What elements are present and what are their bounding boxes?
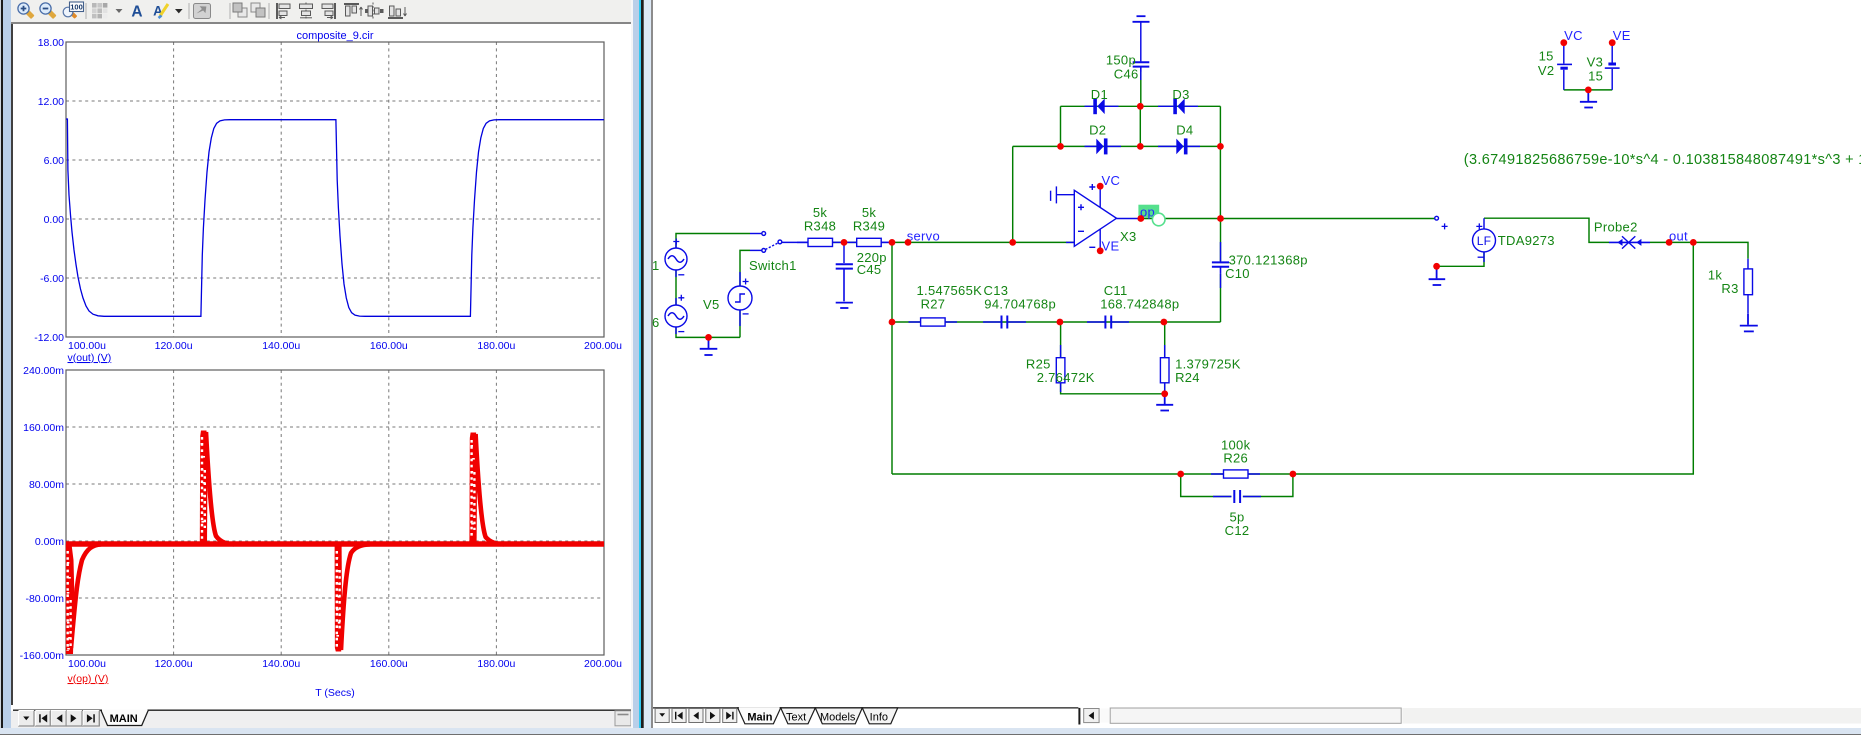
wire diode box left vertical bbox=[1060, 106, 1062, 146]
blue pin overlays bbox=[676, 44, 1748, 497]
svg-text:Probe2: Probe2 bbox=[1594, 220, 1638, 235]
svg-text:servo: servo bbox=[907, 229, 940, 244]
svg-text:18.00: 18.00 bbox=[38, 37, 64, 49]
wire V2 V3 bottom bus bbox=[1564, 89, 1612, 91]
svg-text:Switch1: Switch1 bbox=[749, 258, 797, 273]
white flecks inside spikes bbox=[67, 443, 476, 650]
svg-text:A: A bbox=[131, 4, 142, 21]
svg-text:C12: C12 bbox=[1225, 523, 1250, 538]
pin C46 leads bbox=[1140, 61, 1142, 80]
junction V2 V3 ground bbox=[1585, 87, 1592, 94]
plot1 x labels bbox=[68, 340, 622, 352]
wire switch to R348 bbox=[782, 241, 809, 243]
align left bbox=[277, 3, 290, 19]
junction servo right bbox=[905, 239, 912, 246]
svg-text:80.00m: 80.00m bbox=[29, 479, 64, 491]
plot1 trace v(out) bbox=[66, 119, 604, 316]
pin V2 leads bbox=[1563, 44, 1565, 90]
junction diode row2 left bbox=[1057, 143, 1064, 150]
zoom in bbox=[18, 3, 35, 19]
svg-text:VC: VC bbox=[1102, 173, 1121, 188]
junction C13 C11 R25 bbox=[1057, 319, 1064, 326]
pin V6 top lead bbox=[675, 298, 677, 305]
wire servo branch down to R27 row and feedback row bbox=[891, 242, 893, 474]
scrollbar thumb bbox=[1110, 708, 1401, 723]
pin R348 leads bbox=[797, 241, 857, 243]
capacitor C45 bbox=[836, 264, 853, 301]
capacitor C13 bbox=[1002, 316, 1008, 329]
battery V2 bbox=[1557, 64, 1572, 68]
pin V6 bottom lead bbox=[675, 327, 677, 334]
pin R25 leads bbox=[1060, 345, 1062, 392]
svg-text:140.00u: 140.00u bbox=[262, 340, 300, 352]
wire C46 top to ground bbox=[1140, 23, 1142, 62]
laplace source LF TDA9273 bbox=[1473, 223, 1496, 257]
resistor R25 bbox=[1056, 358, 1065, 383]
zoom 100% bbox=[63, 2, 83, 19]
svg-text:15: 15 bbox=[1588, 69, 1603, 84]
probe Probe2 bbox=[1609, 236, 1650, 248]
align bottom bbox=[388, 6, 407, 18]
svg-text:100.00u: 100.00u bbox=[68, 658, 106, 670]
diode D1 bbox=[1093, 98, 1104, 114]
wire C46 to diode row1 bbox=[1140, 72, 1142, 107]
resistor R349 bbox=[857, 238, 882, 246]
wire V5 bottom bbox=[739, 310, 741, 337]
junction op-amp VC pin bbox=[1097, 183, 1104, 190]
svg-text:V3: V3 bbox=[1587, 55, 1604, 70]
svg-text:Text: Text bbox=[786, 711, 806, 723]
pin op-amp minus lead bbox=[1066, 241, 1074, 243]
to front bbox=[233, 3, 247, 17]
svg-text:VE: VE bbox=[1102, 239, 1120, 254]
ground (R3) bbox=[1740, 314, 1758, 332]
svg-text:12.00: 12.00 bbox=[38, 96, 64, 108]
junction servo left bbox=[889, 239, 896, 246]
wire feedback row left segment bbox=[892, 473, 1181, 475]
wire diode row2 bbox=[1013, 145, 1221, 147]
junction VE supply bbox=[1609, 39, 1616, 46]
svg-text:1k: 1k bbox=[1708, 268, 1723, 283]
wire V1 top to switch bbox=[676, 234, 750, 249]
svg-text:composite_9.cir: composite_9.cir bbox=[296, 30, 373, 42]
ground (R24) bbox=[1156, 394, 1173, 411]
pin V1 top lead bbox=[675, 241, 677, 248]
wire out to R3 bbox=[1693, 242, 1748, 258]
wire op output net bbox=[1141, 218, 1435, 220]
svg-text:Info: Info bbox=[869, 711, 887, 723]
junction diode drop on servo net bbox=[1009, 239, 1016, 246]
junction R348 R349 C45 bbox=[841, 239, 848, 246]
wire C10 branch bbox=[1220, 219, 1222, 323]
junction C11 R24 bbox=[1161, 319, 1168, 326]
svg-text:v(out) (V): v(out) (V) bbox=[68, 352, 112, 364]
pin switch lower lead bbox=[750, 249, 762, 251]
svg-text:V5: V5 bbox=[703, 297, 720, 312]
wire LF minus to ground bbox=[1437, 252, 1484, 266]
plot1 grid bbox=[66, 42, 604, 337]
plot2 border bbox=[66, 370, 604, 655]
spike white dash texture bbox=[68, 437, 475, 651]
junction feedback R26 left bbox=[1177, 471, 1184, 478]
nav buttons bbox=[19, 711, 100, 726]
resistor R24 bbox=[1160, 358, 1169, 383]
pin V5 leads bbox=[739, 272, 741, 326]
resistor R348 bbox=[808, 238, 833, 246]
junction output C10 bbox=[1217, 215, 1224, 222]
pin R26 leads bbox=[1211, 473, 1260, 475]
plot1 y labels bbox=[34, 37, 64, 344]
spikes: recovery curves bbox=[71, 432, 504, 650]
picture tool bbox=[194, 3, 211, 18]
svg-text:-6.00: -6.00 bbox=[40, 273, 64, 285]
junction out left bbox=[1666, 239, 1673, 246]
align top bbox=[344, 4, 363, 16]
svg-text:R27: R27 bbox=[921, 297, 946, 312]
junction VC supply bbox=[1560, 39, 1567, 46]
pin V1 bottom lead bbox=[675, 270, 677, 277]
wire V6 to ground bus bbox=[676, 327, 740, 337]
capacitor C10 bbox=[1212, 262, 1229, 273]
zoom out bbox=[40, 3, 57, 19]
junction out right bbox=[1690, 239, 1697, 246]
svg-text:120.00u: 120.00u bbox=[155, 658, 193, 670]
junction sources ground bbox=[705, 334, 712, 341]
svg-text:R349: R349 bbox=[853, 219, 885, 234]
svg-text:LF: LF bbox=[1477, 234, 1492, 248]
junction diode row2 center bbox=[1137, 143, 1144, 150]
pin LF leads bbox=[1483, 218, 1485, 262]
op-amp X3 bbox=[1051, 184, 1117, 250]
junction diode row1 center bbox=[1137, 103, 1144, 110]
svg-text:0.00m: 0.00m bbox=[35, 536, 64, 548]
tabs bbox=[780, 708, 815, 724]
pin switch upper lead bbox=[750, 233, 762, 235]
svg-text:v(op) (V): v(op) (V) bbox=[68, 673, 109, 685]
svg-text:R24: R24 bbox=[1175, 370, 1200, 385]
svg-text:200.00u: 200.00u bbox=[584, 340, 622, 352]
svg-text:100.00u: 100.00u bbox=[68, 340, 106, 352]
svg-text:V6: V6 bbox=[652, 315, 660, 330]
svg-text:6.00: 6.00 bbox=[44, 155, 65, 167]
svg-text:200.00u: 200.00u bbox=[584, 658, 622, 670]
grid select bbox=[92, 3, 107, 18]
svg-text:94.704768p: 94.704768p bbox=[984, 297, 1056, 312]
wire diode row1 to row2 center bbox=[1139, 106, 1141, 146]
MAIN tab bbox=[101, 710, 148, 725]
svg-text:R26: R26 bbox=[1223, 451, 1248, 466]
ground (C46 top, inverted) bbox=[1133, 16, 1150, 22]
pin C13 leads bbox=[983, 321, 1026, 323]
svg-text:TDA9273: TDA9273 bbox=[1498, 233, 1555, 248]
pin D1 leads bbox=[1085, 105, 1119, 107]
wire servo net to op-amp minus input bbox=[892, 241, 1074, 243]
ground (sources) bbox=[700, 337, 718, 355]
wire R348 to R349 node bbox=[833, 241, 857, 243]
svg-text:VC: VC bbox=[1564, 28, 1583, 43]
laplace source TDA9273 open pin bbox=[1435, 216, 1448, 229]
svg-text:0.00: 0.00 bbox=[44, 214, 65, 226]
switch Switch1 bbox=[762, 232, 782, 253]
svg-text:C10: C10 bbox=[1225, 266, 1250, 281]
pin C12 leads bbox=[1213, 496, 1261, 498]
junction op output bbox=[1137, 215, 1144, 222]
svg-text:15: 15 bbox=[1539, 49, 1554, 64]
plot1 border bbox=[66, 42, 604, 337]
svg-text:(3.67491825686759e-10*s^4 - 0.: (3.67491825686759e-10*s^4 - 0.1038158480… bbox=[1464, 152, 1861, 168]
align middle bbox=[366, 3, 384, 20]
diode D4 bbox=[1176, 138, 1187, 154]
wire R349 to servo node bbox=[881, 241, 892, 243]
wire diode row1 bbox=[1061, 105, 1221, 107]
svg-text:160.00u: 160.00u bbox=[370, 658, 408, 670]
svg-text:D4: D4 bbox=[1176, 123, 1193, 138]
svg-text:180.00u: 180.00u bbox=[477, 340, 515, 352]
tab strip right edge bbox=[1078, 708, 1080, 725]
pin C45 top lead bbox=[843, 242, 845, 263]
svg-text:V1: V1 bbox=[652, 258, 660, 273]
plot2 y labels bbox=[20, 365, 65, 662]
align right bbox=[322, 3, 335, 19]
spikes: columns bbox=[66, 431, 477, 655]
junction R27 row left bbox=[889, 319, 896, 326]
svg-text:100: 100 bbox=[70, 3, 83, 12]
ground (LF source) bbox=[1429, 266, 1446, 285]
resistor R26 bbox=[1224, 470, 1249, 478]
junction op-amp VE pin bbox=[1097, 247, 1104, 254]
junction LF ground bbox=[1433, 263, 1440, 270]
capacitor C46 bbox=[1133, 62, 1150, 71]
nav buttons bbox=[655, 709, 737, 723]
wire R24 branch bbox=[1164, 322, 1166, 394]
node op selection ring bbox=[1152, 213, 1165, 226]
svg-text:D2: D2 bbox=[1089, 123, 1106, 138]
svg-text:R3: R3 bbox=[1721, 281, 1738, 296]
svg-text:-80.00m: -80.00m bbox=[25, 593, 64, 605]
wire LF plus pin riser bbox=[1484, 218, 1609, 242]
svg-text:D1: D1 bbox=[1091, 87, 1108, 102]
right gripper bbox=[615, 711, 631, 726]
svg-text:V2: V2 bbox=[1538, 63, 1555, 78]
scrollbar left arrow bbox=[1083, 709, 1098, 723]
pin op-amp output lead bbox=[1117, 218, 1141, 220]
svg-text:T (Secs): T (Secs) bbox=[315, 687, 354, 699]
svg-text:180.00u: 180.00u bbox=[477, 658, 515, 670]
resistor R3 bbox=[1744, 269, 1753, 295]
wire feedback row to R26 bbox=[1181, 473, 1293, 475]
capacitor C12 bbox=[1234, 490, 1240, 503]
svg-text:C46: C46 bbox=[1114, 67, 1139, 82]
wire diode row2 left drop to servo net bbox=[1012, 146, 1014, 242]
svg-text:2.76472K: 2.76472K bbox=[1037, 370, 1095, 385]
svg-text:VE: VE bbox=[1613, 28, 1631, 43]
junction feedback R26 right bbox=[1290, 471, 1297, 478]
svg-text:D3: D3 bbox=[1172, 87, 1189, 102]
plot2 x labels bbox=[68, 658, 622, 670]
scrollbar track bbox=[1402, 708, 1861, 723]
sine source V1 bbox=[665, 239, 687, 275]
font color A with pencil bbox=[153, 4, 168, 19]
wire diode box right vertical to output bbox=[1219, 106, 1221, 218]
pin R24 leads bbox=[1164, 345, 1166, 392]
svg-text:160.00u: 160.00u bbox=[370, 340, 408, 352]
pin D2 leads bbox=[1085, 145, 1122, 147]
pin C10 leads bbox=[1220, 242, 1222, 288]
pin R3 leads bbox=[1747, 259, 1749, 314]
svg-text:X3: X3 bbox=[1120, 229, 1137, 244]
svg-text:160.00m: 160.00m bbox=[23, 422, 64, 434]
align center bbox=[300, 3, 313, 20]
wire R25 branch bbox=[1061, 322, 1165, 394]
ground (C45) bbox=[836, 303, 853, 308]
diode D3 bbox=[1173, 98, 1184, 114]
pin C11 leads bbox=[1087, 321, 1129, 323]
node op highlight bbox=[1138, 205, 1159, 218]
svg-text:-12.00: -12.00 bbox=[34, 332, 64, 344]
svg-text:Models: Models bbox=[820, 711, 856, 723]
svg-text:MAIN: MAIN bbox=[110, 713, 138, 725]
svg-text:R348: R348 bbox=[804, 219, 836, 234]
resistor R27 bbox=[921, 318, 946, 326]
wire R27 C13 C11 row bbox=[892, 321, 1221, 323]
pin R27 leads bbox=[909, 321, 958, 323]
battery V3 bbox=[1605, 64, 1620, 68]
svg-text:240.00m: 240.00m bbox=[23, 365, 64, 377]
svg-text:C45: C45 bbox=[857, 262, 882, 277]
wire V5 top to switch bbox=[740, 250, 750, 286]
pin D4 leads bbox=[1158, 145, 1200, 147]
capacitor C11 bbox=[1105, 316, 1111, 329]
wire C12 parallel loop bbox=[1181, 474, 1293, 497]
diode D2 bbox=[1096, 138, 1107, 154]
wire out down to feedback row bbox=[1293, 242, 1693, 474]
pin R349 leads bbox=[881, 241, 892, 243]
pin V3 leads bbox=[1611, 44, 1613, 90]
ground (V2 V3) bbox=[1580, 90, 1597, 108]
wire probe to out node bbox=[1650, 241, 1693, 243]
junction R25 R24 ground bbox=[1161, 390, 1168, 397]
wire V1 to V6 bbox=[675, 270, 677, 305]
svg-text:150p: 150p bbox=[1106, 53, 1136, 68]
svg-text:-160.00m: -160.00m bbox=[20, 650, 65, 662]
pulse source V5 bbox=[728, 279, 752, 314]
svg-text:Main: Main bbox=[747, 711, 772, 723]
sine source V6 bbox=[665, 295, 687, 332]
to back bbox=[251, 3, 265, 17]
pin D3 leads bbox=[1158, 105, 1198, 107]
plot2 trace v(op) baseline bbox=[66, 541, 604, 547]
svg-text:140.00u: 140.00u bbox=[262, 658, 300, 670]
svg-text:168.742848p: 168.742848p bbox=[1100, 297, 1179, 312]
svg-text:120.00u: 120.00u bbox=[155, 340, 193, 352]
junction diode row2 right bbox=[1217, 143, 1224, 150]
plot2 grid bbox=[66, 370, 604, 655]
